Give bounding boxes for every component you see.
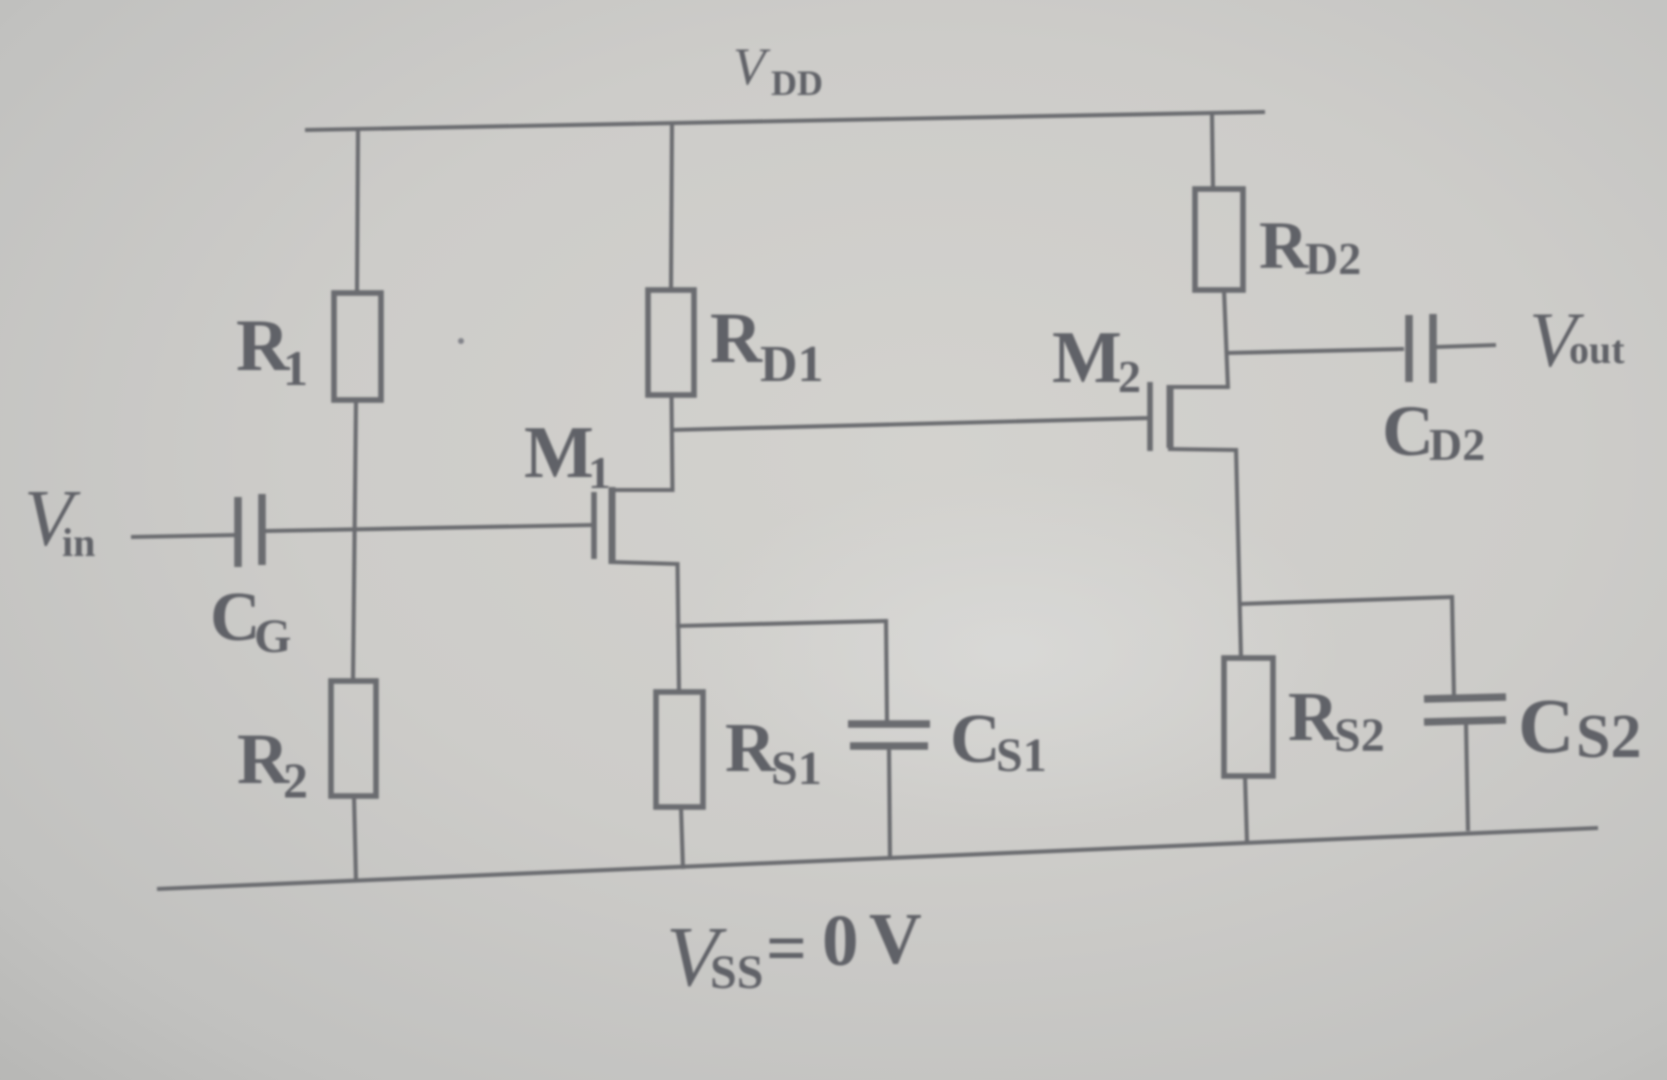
svg-text:V: V	[869, 898, 922, 979]
wire M1 source horizontal	[610, 562, 678, 564]
VDD rail	[305, 112, 1265, 130]
wire CS1 top lead	[886, 619, 887, 721]
wire M1 drain horizontal	[610, 488, 673, 492]
svg-text:R: R	[1288, 679, 1340, 756]
wire CS1 bottom lead	[889, 749, 890, 860]
svg-text:C: C	[1518, 682, 1574, 769]
wire M1 drain vertical to RD1	[672, 395, 673, 492]
svg-text:G: G	[254, 610, 291, 663]
wire RD1 top lead	[671, 124, 672, 290]
wire CS1 branch horizontal	[676, 621, 886, 626]
resistor RS2	[1224, 658, 1273, 776]
wire RS2 bottom lead	[1245, 776, 1247, 842]
svg-text:2: 2	[283, 752, 308, 808]
wire CS2 top lead	[1452, 595, 1454, 698]
svg-text:S2: S2	[1576, 703, 1641, 771]
svg-text:M: M	[524, 412, 594, 494]
wire R1 top lead	[357, 131, 358, 293]
wire CS2 bottom lead	[1466, 723, 1468, 831]
svg-text:D2: D2	[1305, 233, 1361, 284]
resistor R1	[334, 293, 381, 400]
capacitor CS1 top plate	[848, 720, 930, 728]
wire RD2 top lead	[1212, 114, 1213, 189]
svg-text:D1: D1	[760, 336, 824, 393]
wire RS1 bottom lead	[681, 807, 683, 869]
svg-text:R: R	[710, 298, 763, 378]
capacitor CS2 bottom plate	[1424, 720, 1506, 722]
transistor M1 gate bar	[591, 492, 597, 559]
wire R1 bottom to R2 top	[353, 400, 356, 681]
resistor RD1	[648, 290, 694, 395]
svg-text:R: R	[1259, 207, 1309, 283]
svg-text:C: C	[950, 701, 1001, 778]
wire RD2 bottom to M2 drain node	[1224, 290, 1228, 389]
svg-text:DD: DD	[771, 63, 823, 103]
VSS bottom rail	[157, 828, 1598, 889]
svg-text:C: C	[210, 579, 261, 656]
wire Vin lead	[131, 535, 236, 537]
wire Vout branch	[1227, 349, 1404, 353]
svg-text:0: 0	[822, 900, 859, 981]
svg-text:in: in	[62, 520, 95, 565]
capacitor CG right plate	[258, 494, 266, 565]
wire CD2 right lead	[1436, 345, 1496, 347]
transistor M2 gate bar	[1147, 382, 1153, 451]
resistor R2	[331, 681, 376, 796]
svg-text:1: 1	[283, 340, 308, 396]
printing speck	[458, 338, 464, 344]
svg-text:out: out	[1569, 327, 1625, 372]
svg-text:SS: SS	[710, 946, 763, 999]
resistor RS1	[656, 692, 703, 807]
transistor M2 channel bar	[1167, 385, 1174, 448]
svg-text:1: 1	[588, 447, 611, 498]
svg-text:S1: S1	[771, 742, 822, 795]
wire M1 drain to M2 gate	[671, 418, 1150, 430]
wire CS2 branch horizontal	[1239, 597, 1452, 604]
capacitor CD2 right plate	[1429, 314, 1437, 383]
resistor RD2	[1195, 189, 1243, 290]
svg-text:M: M	[1052, 317, 1122, 399]
capacitor CG left plate	[234, 497, 242, 567]
svg-text:R: R	[725, 710, 777, 787]
capacitor CD2 left plate	[1405, 315, 1413, 382]
wire CG to M1 gate	[265, 525, 593, 531]
svg-text:C: C	[1382, 391, 1434, 471]
paper sheen highlight	[680, 470, 1340, 830]
svg-text:=: =	[766, 908, 807, 988]
svg-text:S2: S2	[1334, 709, 1385, 762]
svg-text:S1: S1	[996, 729, 1047, 782]
capacitor CS2 top plate	[1424, 697, 1506, 699]
svg-text:2: 2	[1118, 351, 1141, 402]
wire M2 drain horizontal	[1168, 385, 1228, 389]
wire M2 source horizontal	[1168, 449, 1236, 450]
transistor M1 channel bar	[609, 487, 616, 564]
wire M1 source vertical down to RS1	[678, 562, 680, 692]
svg-text:D2: D2	[1429, 419, 1485, 470]
capacitor CS1 bottom plate	[850, 742, 928, 750]
wire M2 source vertical down to RS2	[1236, 448, 1241, 658]
svg-text:V: V	[733, 38, 771, 96]
wire R2 bottom lead	[354, 796, 356, 881]
